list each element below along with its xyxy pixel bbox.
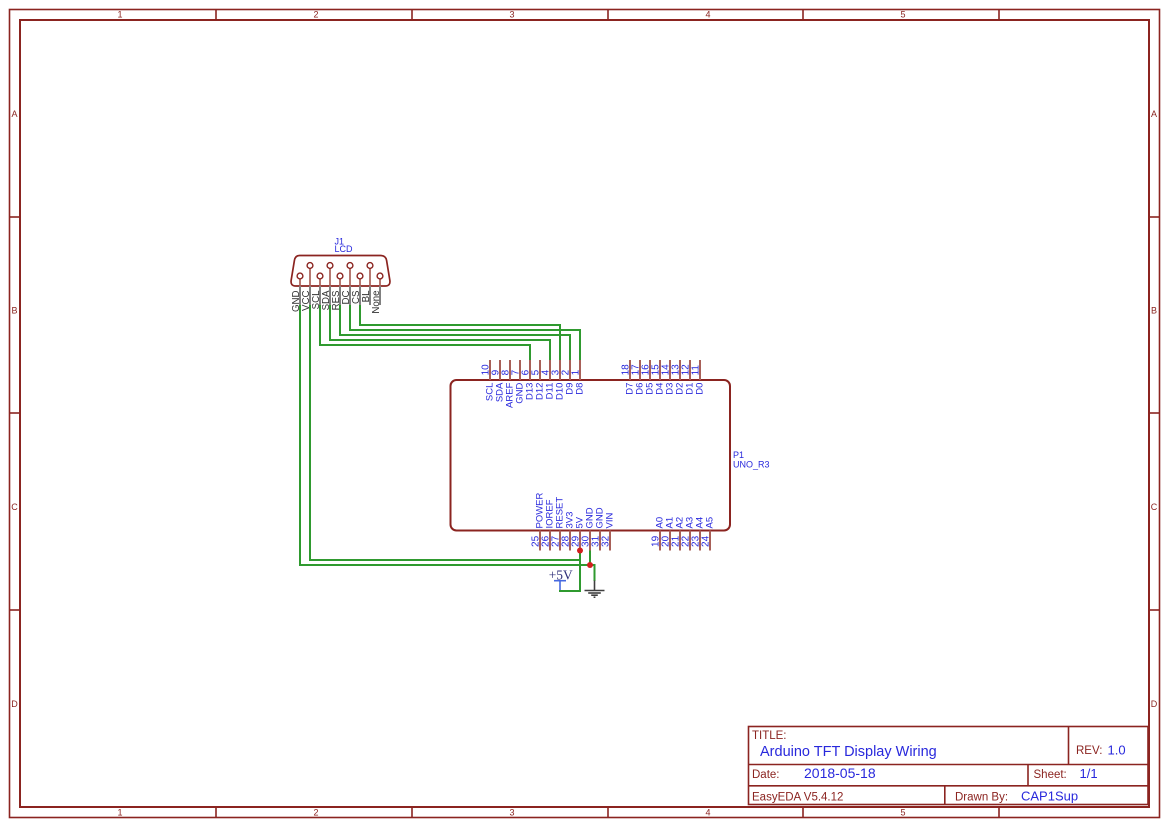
svg-text:Arduino TFT Display Wiring: Arduino TFT Display Wiring	[760, 744, 937, 760]
svg-text:D: D	[11, 699, 18, 709]
svg-text:LCD: LCD	[335, 244, 354, 254]
svg-text:D0: D0	[695, 383, 706, 395]
svg-text:None: None	[371, 291, 382, 314]
svg-text:VIN: VIN	[605, 513, 616, 529]
svg-text:+5V: +5V	[549, 567, 573, 582]
svg-text:D: D	[1151, 699, 1158, 709]
svg-text:3: 3	[509, 10, 514, 20]
svg-text:1: 1	[117, 808, 122, 818]
svg-text:CAP1Sup: CAP1Sup	[1021, 788, 1078, 803]
svg-text:5: 5	[900, 808, 905, 818]
svg-text:B: B	[1151, 306, 1157, 316]
svg-text:2: 2	[313, 808, 318, 818]
svg-text:C: C	[11, 502, 18, 512]
svg-text:Date:: Date:	[752, 769, 780, 781]
svg-text:11: 11	[691, 365, 702, 376]
svg-text:A: A	[1151, 109, 1157, 119]
svg-text:1: 1	[571, 369, 582, 375]
svg-text:B: B	[11, 306, 17, 316]
svg-text:5: 5	[900, 10, 905, 20]
svg-text:EasyEDA V5.4.12: EasyEDA V5.4.12	[752, 791, 843, 803]
svg-text:A: A	[11, 109, 17, 119]
svg-text:1.0: 1.0	[1108, 742, 1126, 757]
svg-text:TITLE:: TITLE:	[752, 730, 787, 742]
svg-text:2018-05-18: 2018-05-18	[804, 765, 876, 781]
svg-text:1/1: 1/1	[1080, 766, 1098, 781]
svg-text:32: 32	[601, 535, 612, 547]
svg-text:1: 1	[117, 10, 122, 20]
svg-text:4: 4	[705, 10, 710, 20]
svg-text:UNO_R3: UNO_R3	[733, 459, 770, 469]
svg-text:2: 2	[313, 10, 318, 20]
svg-text:A5: A5	[705, 517, 716, 529]
svg-text:24: 24	[701, 535, 712, 547]
svg-text:Sheet:: Sheet:	[1034, 769, 1067, 781]
svg-text:REV:: REV:	[1076, 745, 1102, 757]
svg-text:C: C	[1151, 502, 1158, 512]
svg-text:3: 3	[509, 808, 514, 818]
svg-text:D8: D8	[575, 383, 586, 395]
svg-text:4: 4	[705, 808, 710, 818]
svg-text:Drawn By:: Drawn By:	[955, 791, 1008, 803]
